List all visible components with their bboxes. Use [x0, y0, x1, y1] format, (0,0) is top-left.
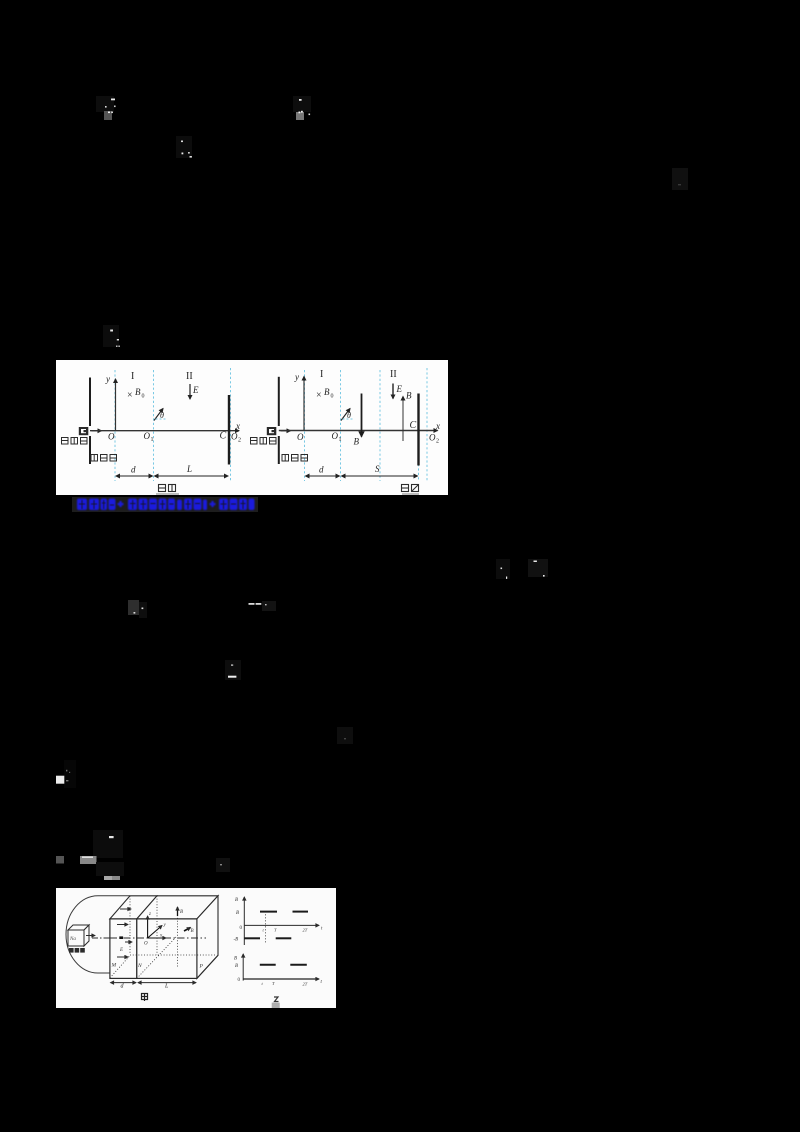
box M front face: [110, 919, 137, 979]
dimension d: [111, 982, 137, 984]
B up arrow: [402, 397, 404, 442]
small 6: [177, 500, 182, 511]
cyan dashed line at O: [114, 370, 116, 481]
blue glyph blobs token 1: [77, 499, 87, 511]
Bz segments: [260, 964, 276, 966]
white figure background: [56, 360, 448, 495]
dashed t0 line: [264, 914, 266, 944]
dash-dot center line: [92, 937, 206, 939]
fragment cluster 15: [216, 858, 230, 872]
dimension d: [306, 475, 340, 477]
fragment cluster 1: [96, 96, 116, 120]
solid diagonal bottom right of box L: [197, 955, 218, 978]
figure 1: two ion-source field diagrams (图甲 / 图乙): [56, 360, 448, 495]
arrows of E field inside box M: [117, 909, 132, 957]
gray mark under 图乙: [402, 493, 419, 495]
B down arrow in middle: [361, 394, 363, 437]
cyan dashed below plate: [418, 464, 420, 481]
dimension L: [155, 475, 229, 477]
fragment cluster 11: [225, 660, 241, 680]
token 2: [128, 499, 137, 511]
dash-dot line continuation inside boxes: [110, 937, 206, 939]
x-axis: [279, 430, 438, 432]
cyan dashed line at O1: [153, 370, 155, 481]
fragment cluster 14: formula with gray blocks: [56, 830, 124, 880]
hidden dotted back edges: [110, 896, 216, 979]
box L top face: [137, 896, 218, 919]
left accelerating plate (with gap for ion source): [89, 378, 91, 427]
right plate C: [228, 395, 230, 465]
positive By segments: [260, 911, 277, 913]
white figure background: [56, 888, 336, 1008]
fragment cluster 12: [337, 727, 353, 744]
cyan dashed line right of plate: [426, 368, 428, 481]
plus sign: [118, 503, 124, 505]
bold dash on center line: [119, 936, 123, 939]
figure 2: 3D velocity-selector drawing (甲) and B-t graphs (乙): [56, 888, 336, 1008]
甲 caption: [142, 994, 148, 1002]
离子源 text: [251, 438, 277, 445]
cyan dashed line at O: [304, 370, 306, 481]
图甲 caption: [159, 485, 176, 492]
dimension d: [116, 475, 153, 477]
token 3: [184, 499, 192, 511]
coordinate axes at O: [147, 916, 149, 938]
bottom graph x-axis: [243, 978, 319, 980]
plus sign: [210, 503, 216, 505]
fragment cluster 3: [176, 136, 192, 158]
beam arrow from cube: [86, 935, 95, 937]
ion source box: [79, 427, 89, 435]
fragment cluster 10: [249, 601, 277, 611]
cyan underline under theta: [343, 418, 355, 420]
box L right side face: [197, 896, 218, 979]
left accelerating plate: [278, 377, 280, 426]
E field arrow: [392, 384, 394, 399]
theta velocity arrow at O1: [154, 409, 163, 421]
乙 caption: [274, 997, 279, 1002]
cyan dashed line mid region II: [379, 370, 381, 481]
cyan dashed line at plate C: [230, 368, 232, 481]
加速区 text (acceleration region): [91, 455, 117, 462]
gray mark under 图甲: [156, 493, 179, 495]
right plate C: [417, 394, 419, 466]
fragment cluster 7: [496, 559, 510, 579]
top graph x-axis: [244, 924, 319, 926]
图乙 caption: [402, 485, 419, 492]
gray block under 乙: [272, 1003, 280, 1008]
fragment cluster 5: [103, 325, 120, 347]
dark slits inside blue glyphs to suggest character strokes: [79, 500, 246, 509]
fragment cluster 8: [528, 559, 548, 577]
box L front face: [137, 919, 197, 979]
theta velocity arrow at O1: [341, 409, 350, 421]
y-axis: [303, 377, 305, 431]
bottom graph y-axis: [242, 954, 244, 981]
top graph y-axis: [243, 897, 245, 945]
ion source cube: [68, 925, 89, 946]
token 4: [219, 499, 228, 511]
beam arrow: [281, 430, 291, 432]
Bx arrow: [184, 928, 191, 932]
stadium outline of field region: [66, 896, 130, 973]
fragment cluster 13: white square: [56, 760, 76, 788]
y-axis: [115, 379, 117, 431]
cyan dashed line at O1: [340, 370, 342, 481]
beam arrow from ion source: [92, 430, 102, 432]
negative By segments: [244, 937, 260, 939]
fragment cluster 9: [128, 600, 147, 618]
Bz arrow: [177, 907, 179, 916]
离子源 label under cube: [69, 948, 85, 953]
加速区 text: [282, 455, 308, 462]
blue advertisement line: [72, 497, 258, 513]
fragment cluster 2: [293, 96, 311, 120]
dimension L: [138, 982, 196, 984]
x-axis: [90, 430, 239, 432]
离子源 text (ion source): [62, 438, 88, 445]
fragment cluster 4 (very faint): [672, 168, 688, 190]
cyan underline under theta: [156, 418, 168, 420]
box M top face: [110, 896, 157, 919]
dimension S: [342, 475, 418, 477]
E field arrow: [189, 384, 191, 399]
ion source box: [267, 427, 277, 435]
